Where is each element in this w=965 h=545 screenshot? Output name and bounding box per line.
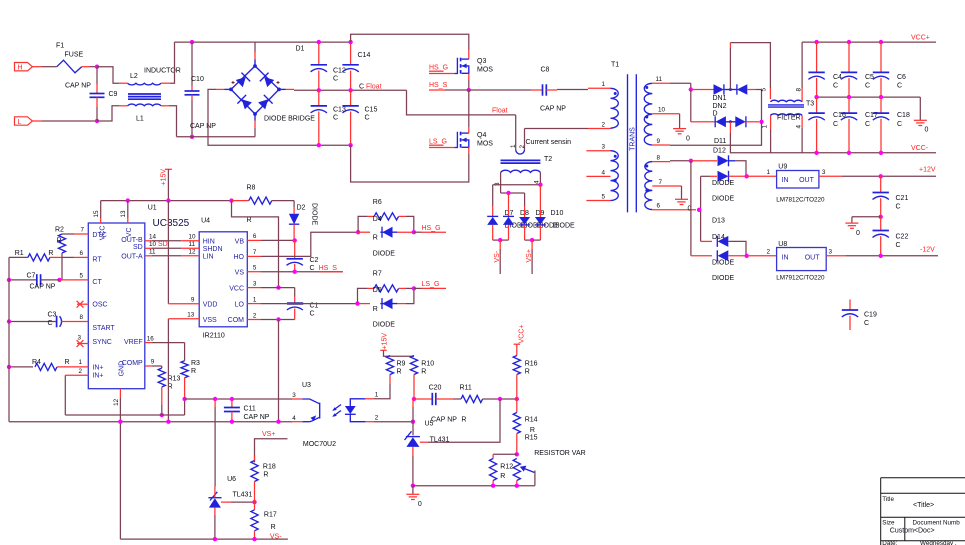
resistor R12: [493, 453, 517, 455]
svg-text:R15: R15: [525, 435, 538, 442]
filter T3 top winding: [770, 100, 802, 102]
svg-text:C8: C8: [541, 67, 550, 74]
svg-text:5: 5: [602, 193, 606, 200]
svg-text:DIODE: DIODE: [373, 250, 396, 257]
capacitor C9: [96, 67, 98, 84]
node VCC: [276, 285, 280, 289]
svg-text:D13: D13: [712, 218, 725, 225]
wire rectifier out to T3 pin5: [729, 48, 731, 90]
svg-text:H: H: [18, 65, 23, 72]
U1 SYNC no-connect: [77, 343, 88, 345]
svg-text:HS_S: HS_S: [429, 82, 448, 89]
bottom AC rail: [177, 136, 256, 138]
wire U6 ref: [221, 501, 231, 503]
svg-text:8: 8: [80, 314, 84, 321]
svg-text:Custom<Doc>: Custom<Doc>: [890, 528, 935, 535]
wire D9-D10 cathode join: [525, 239, 541, 241]
svg-text:D4: D4: [373, 216, 382, 223]
svg-text:L2: L2: [130, 73, 138, 80]
net VS+ wire: [255, 439, 288, 463]
power VCC+ mid: [514, 343, 520, 345]
node half-bridge midpoint: [467, 88, 471, 92]
wire top rail jog to Q3 drain: [351, 34, 469, 50]
resistor R13: [161, 366, 163, 368]
light arrows: [334, 405, 342, 411]
U4 VSS wire down: [167, 319, 169, 422]
svg-text:R: R: [57, 238, 62, 245]
capacitor C1: [294, 288, 296, 297]
U3 LED: [350, 399, 365, 406]
svg-text:Q3: Q3: [477, 58, 486, 65]
svg-text:U8: U8: [778, 241, 787, 248]
wire +15V down to VDD: [167, 201, 169, 304]
svg-text:VB: VB: [235, 239, 245, 246]
svg-text:1: 1: [375, 392, 379, 399]
wire Q4 source to negative bus: [468, 147, 470, 154]
capacitor C14: [350, 42, 352, 65]
transformer T1 secondary 8-7-6: [645, 162, 652, 210]
resistor R10: [410, 356, 417, 375]
svg-text:HS_S: HS_S: [319, 265, 338, 272]
mid DC rail: [319, 89, 407, 91]
wire T2 to T1 pin2: [525, 128, 589, 130]
svg-text:11: 11: [149, 249, 156, 256]
svg-text:FILTER: FILTER: [777, 114, 801, 121]
U1 pin 12 GND stub: [119, 389, 121, 398]
power +15V top: [165, 168, 172, 170]
node C13 bottom: [317, 143, 321, 147]
svg-text:UC3525: UC3525: [153, 218, 190, 229]
svg-text:U5: U5: [425, 421, 434, 428]
node U9 input: [745, 174, 749, 178]
svg-text:+15V: +15V: [161, 169, 168, 186]
svg-text:SD: SD: [133, 244, 143, 251]
svg-text:IN+: IN+: [92, 364, 103, 371]
phase dot winding4: [614, 179, 617, 182]
port H: [15, 63, 33, 71]
svg-text:D10: D10: [551, 210, 564, 217]
diode DN1 right: [737, 84, 747, 94]
capacitor C12: [318, 42, 320, 65]
svg-text:START: START: [92, 325, 115, 332]
svg-text:R: R: [500, 473, 505, 480]
svg-text:15: 15: [93, 210, 100, 218]
transformer T2 core: [501, 159, 541, 161]
svg-text:R9: R9: [397, 361, 406, 368]
wire bridge left to DC- rail: [216, 88, 225, 90]
svg-text:R6: R6: [373, 199, 382, 206]
wire mid rail to Float corner: [407, 90, 516, 115]
svg-text:RESISTOR VAR: RESISTOR VAR: [534, 450, 585, 457]
wire OUT-B to HIN: [145, 240, 152, 242]
node C12 bottom: [317, 88, 321, 92]
wire Q3 source to node: [468, 74, 470, 80]
wire U5 ref to R11 node: [420, 441, 428, 443]
svg-text:3: 3: [292, 392, 296, 399]
node U8 input: [745, 254, 749, 258]
svg-text:C: C: [865, 82, 870, 89]
svg-text:MOS: MOS: [477, 66, 493, 73]
node C2 bottom: [293, 270, 297, 274]
svg-text:13: 13: [120, 210, 127, 218]
filter T3 core: [768, 104, 804, 106]
node C7 left: [7, 278, 11, 282]
svg-text:LIN: LIN: [203, 254, 214, 261]
node VS- takeoff: [498, 238, 502, 242]
svg-text:14: 14: [149, 234, 157, 241]
node C14 top: [348, 40, 352, 44]
transformer T1 winding 3-4-5: [586, 150, 610, 152]
svg-text:1: 1: [253, 296, 257, 303]
svg-text:C: C: [865, 121, 870, 128]
node pin2-U5: [411, 420, 415, 424]
filter T3 bottom winding: [770, 114, 802, 116]
+15V R9 R10 rail: [390, 355, 414, 357]
svg-text:C: C: [896, 242, 901, 249]
svg-text:6: 6: [657, 203, 661, 210]
svg-text:CT: CT: [92, 279, 102, 286]
svg-text:C20: C20: [429, 385, 442, 392]
svg-text:Current sensin: Current sensin: [526, 139, 572, 146]
svg-text:LS_G: LS_G: [422, 281, 440, 288]
wire pin2 down to rail: [64, 375, 66, 415]
svg-text:DIODE: DIODE: [311, 203, 318, 226]
svg-text:IN: IN: [782, 177, 789, 184]
DC- rail under caps: [319, 144, 351, 146]
node C21 top: [879, 174, 883, 178]
svg-text:LM7912C/TO220: LM7912C/TO220: [776, 274, 825, 281]
node U6 ref R18 R17: [252, 500, 256, 504]
bottom VS- rail: [120, 538, 288, 540]
svg-text:CAP NP: CAP NP: [431, 417, 457, 424]
svg-text:D2: D2: [297, 205, 306, 212]
transformer T1 secondary 11-10-9: [644, 83, 652, 145]
resistor R9: [386, 356, 393, 375]
wire bottom center to T3 pin1: [729, 122, 731, 133]
resistor R16: [513, 356, 520, 375]
svg-text:16: 16: [147, 335, 155, 342]
diode D11 left: [691, 121, 703, 123]
net label HS_G out: [414, 231, 422, 233]
svg-text:R: R: [373, 235, 378, 242]
wire R2 to CT: [61, 253, 63, 280]
svg-text:1: 1: [767, 169, 771, 176]
wire H to fuse: [32, 66, 42, 68]
svg-text:C: C: [48, 320, 53, 327]
U1 VREF pin16 wire: [145, 342, 152, 344]
svg-text:U6: U6: [227, 476, 236, 483]
svg-text:6: 6: [253, 233, 257, 240]
svg-text:TL431: TL431: [233, 492, 253, 499]
wire bridge top: [254, 42, 256, 52]
svg-text:5: 5: [761, 88, 768, 92]
transformer T2 secondary: [501, 170, 541, 172]
svg-text:L: L: [18, 119, 22, 126]
svg-text:3: 3: [494, 182, 501, 186]
node C10 bottom: [190, 135, 194, 139]
svg-text:R17: R17: [264, 512, 277, 519]
node L-rail junction: [95, 119, 99, 123]
diode D13 row: [701, 175, 710, 177]
svg-text:T2: T2: [544, 156, 552, 163]
phase dot sec10: [645, 116, 648, 119]
svg-text:R3: R3: [191, 360, 200, 367]
svg-text:5: 5: [80, 272, 84, 279]
svg-text:SHDN: SHDN: [203, 246, 223, 253]
svg-text:C: C: [864, 320, 869, 327]
node VB-D2-C2: [293, 238, 297, 242]
capacitor C3: [9, 321, 57, 323]
svg-text:1: 1: [762, 125, 769, 129]
wire L to node: [32, 120, 42, 122]
svg-text:LM7812C/TO220: LM7812C/TO220: [776, 197, 825, 204]
node rectifier left top: [689, 87, 693, 91]
node COM rail: [276, 420, 280, 424]
svg-text:4: 4: [796, 125, 803, 129]
capacitor C5: [847, 40, 851, 44]
svg-text:C: C: [833, 82, 838, 89]
svg-text:U3: U3: [302, 382, 311, 389]
svg-text:VREF: VREF: [124, 339, 143, 346]
diode D12: [691, 160, 703, 162]
svg-text:INDUCTOR: INDUCTOR: [144, 68, 181, 75]
svg-text:11: 11: [189, 241, 196, 248]
node R16 bottom: [515, 397, 519, 401]
svg-text:10: 10: [189, 234, 197, 241]
svg-text:R7: R7: [373, 271, 382, 278]
svg-text:VS: VS: [235, 269, 245, 276]
svg-text:D1: D1: [296, 46, 305, 53]
svg-text:GND: GND: [118, 361, 125, 377]
svg-text:12: 12: [113, 398, 120, 406]
node C3 left: [7, 319, 11, 323]
U4 VSS stub: [168, 318, 199, 320]
capacitor C2: [294, 240, 296, 258]
svg-text:C15: C15: [365, 107, 378, 114]
node R12 bottom: [491, 484, 495, 488]
transformer T2 primary: [515, 115, 517, 150]
wire SD to SHDN: [145, 247, 152, 249]
node rectifier bottom center: [729, 120, 732, 123]
svg-text:C9: C9: [109, 91, 118, 98]
svg-text:C: C: [833, 121, 838, 128]
node HS_G out: [412, 230, 416, 234]
svg-text:IR2110: IR2110: [203, 332, 225, 339]
svg-text:F1: F1: [56, 43, 64, 50]
svg-text:VDD: VDD: [203, 301, 218, 308]
node D10 top: [538, 183, 542, 187]
svg-text:2: 2: [375, 415, 379, 422]
wire T1 pin8 to D12: [670, 160, 691, 162]
svg-text:+12V: +12V: [919, 167, 936, 174]
svg-text:FUSE: FUSE: [65, 52, 84, 59]
svg-text:3: 3: [78, 335, 82, 342]
svg-text:7: 7: [81, 227, 85, 234]
svg-text:DIODE: DIODE: [712, 180, 735, 187]
node VSS rail: [166, 420, 170, 424]
svg-text:0: 0: [925, 127, 929, 134]
svg-text:7: 7: [253, 249, 257, 256]
node R15 bottom: [515, 484, 519, 488]
wire bridge bottom: [254, 121, 256, 129]
node R14 bottom: [515, 452, 519, 456]
svg-text:VS+: VS+: [526, 249, 533, 262]
svg-text:CAP NP: CAP NP: [540, 106, 566, 113]
wire D11 out to T1 pin9: [670, 122, 762, 145]
node C12 top: [317, 40, 321, 44]
capacitor C22: [880, 217, 882, 231]
wire R10 down to U5: [412, 399, 414, 407]
node rectifier top center: [729, 88, 732, 91]
svg-text:VCC+: VCC+: [519, 325, 526, 344]
wire VS HS_S: [247, 271, 261, 273]
svg-text:R: R: [525, 369, 530, 376]
svg-text:OUT: OUT: [799, 177, 815, 184]
svg-text:C5: C5: [865, 74, 874, 81]
svg-text:6: 6: [80, 250, 84, 257]
svg-text:COM: COM: [228, 317, 245, 324]
svg-text:3: 3: [829, 249, 833, 256]
diode D10: [539, 185, 541, 217]
wire T3 pin4 down to VCC- rail: [801, 115, 803, 128]
svg-text:C: C: [896, 204, 901, 211]
resistor R18: [251, 461, 258, 482]
wire HS_S line: [429, 89, 445, 91]
ground C21-C22: [852, 216, 881, 218]
diode D8: [508, 193, 510, 216]
svg-text:+15V: +15V: [381, 333, 388, 350]
wire D7-D10 top bus: [493, 184, 541, 186]
svg-text:C3: C3: [48, 312, 57, 319]
svg-text:OUT-A: OUT-A: [121, 254, 143, 261]
svg-text:0: 0: [856, 230, 860, 237]
capacitor C6: [879, 40, 883, 44]
capacitor C21: [880, 176, 882, 192]
node CT junction: [57, 278, 61, 282]
capacitor C4: [814, 40, 818, 44]
rail to C11 and U3 pin3: [185, 398, 292, 400]
wire L2 up to top rail: [161, 82, 170, 84]
svg-text:C7: C7: [27, 272, 36, 279]
resistor R11: [453, 398, 461, 400]
svg-text:4: 4: [292, 415, 296, 422]
node U6 branch: [213, 397, 217, 401]
svg-text:12: 12: [189, 249, 197, 256]
U1 pin2 stub: [65, 374, 88, 376]
inductor core: [128, 93, 161, 95]
svg-text:OUT: OUT: [805, 254, 821, 261]
U1 pin 13 VC stub: [127, 201, 129, 218]
svg-text:TRANS: TRANS: [629, 127, 636, 151]
node C11 bottom: [230, 420, 234, 424]
wire U3 pin1 up to R9: [373, 384, 390, 399]
svg-text:C: C: [365, 115, 370, 122]
svg-text:R4: R4: [32, 359, 41, 366]
resistor R3: [184, 343, 186, 361]
svg-text:C: C: [333, 115, 338, 122]
svg-text:11: 11: [656, 76, 663, 83]
capacitor C13: [318, 90, 320, 106]
svg-text:2: 2: [767, 249, 771, 256]
node COM: [276, 317, 280, 321]
ground U5: [412, 486, 414, 494]
left rail: [8, 257, 10, 421]
U1 COMP pin9 wire: [145, 365, 152, 367]
svg-text:DIODE: DIODE: [712, 260, 735, 267]
svg-text:DIODE: DIODE: [553, 223, 576, 230]
node H-rail junction: [95, 65, 99, 69]
wire U3 pin2 to U5 column: [373, 421, 413, 423]
phase dot sec8: [645, 165, 648, 168]
VCC- rail: [771, 152, 936, 154]
svg-text:L1: L1: [136, 116, 144, 123]
svg-text:DIODE: DIODE: [373, 322, 396, 329]
svg-text:9: 9: [151, 359, 155, 366]
title block: [881, 478, 965, 545]
transformer T1 core: [627, 74, 629, 212]
svg-text:2: 2: [253, 312, 257, 319]
U1 pin 15 VCC stub: [100, 201, 102, 218]
net VS+ stub: [531, 240, 533, 249]
node VS+ takeoff: [530, 238, 534, 242]
svg-text:CAP NP: CAP NP: [65, 83, 91, 90]
svg-text:MOC70U2: MOC70U2: [303, 441, 336, 448]
svg-text:R: R: [263, 472, 268, 479]
svg-text:9: 9: [657, 138, 661, 145]
svg-text:R: R: [65, 359, 70, 366]
svg-text:RT: RT: [92, 256, 102, 263]
svg-text:C4: C4: [833, 74, 842, 81]
svg-text:3: 3: [602, 144, 606, 151]
svg-text:Size: Size: [882, 520, 895, 527]
svg-text:T3: T3: [806, 100, 814, 107]
svg-text:D5: D5: [373, 287, 382, 294]
svg-text:C18: C18: [897, 112, 910, 119]
svg-text:7: 7: [659, 179, 663, 186]
resistor R8: [232, 200, 249, 202]
capacitor C17: [848, 97, 850, 113]
port L: [15, 117, 33, 125]
svg-text:R1: R1: [15, 250, 24, 257]
resistor R6 diode D4 pair: [356, 230, 360, 234]
svg-text:2: 2: [79, 368, 83, 375]
node pin13 top: [126, 198, 130, 202]
svg-text:VCC: VCC: [229, 285, 244, 292]
capacitor C18: [880, 97, 882, 113]
svg-text:U4: U4: [201, 218, 210, 225]
wire D7-D8 cathode join: [493, 239, 509, 241]
wire GND pin12 down: [119, 398, 121, 539]
wire T3 pin8 up to VCC+ rail: [801, 88, 803, 102]
node R8 branch: [229, 198, 233, 202]
resistor R4: [9, 366, 33, 368]
node +15V entry: [166, 198, 170, 202]
inductor L1: [128, 104, 161, 106]
svg-text:OSC: OSC: [92, 302, 107, 309]
node D8 top junction: [506, 191, 510, 195]
wire C8 to T1 pin1: [557, 89, 588, 91]
svg-text:C11: C11: [244, 406, 256, 413]
wire OUT-A to LIN: [145, 255, 152, 257]
wire D13 anode down to pin6 node: [700, 176, 702, 241]
svg-text:DIODE: DIODE: [712, 195, 735, 202]
wire LO: [247, 303, 261, 305]
wire bridge right to mid rail: [286, 88, 295, 90]
diode D7: [492, 185, 494, 206]
capacitor C15: [350, 90, 352, 106]
svg-text:10: 10: [658, 107, 666, 114]
svg-text:Date:: Date:: [882, 540, 897, 545]
